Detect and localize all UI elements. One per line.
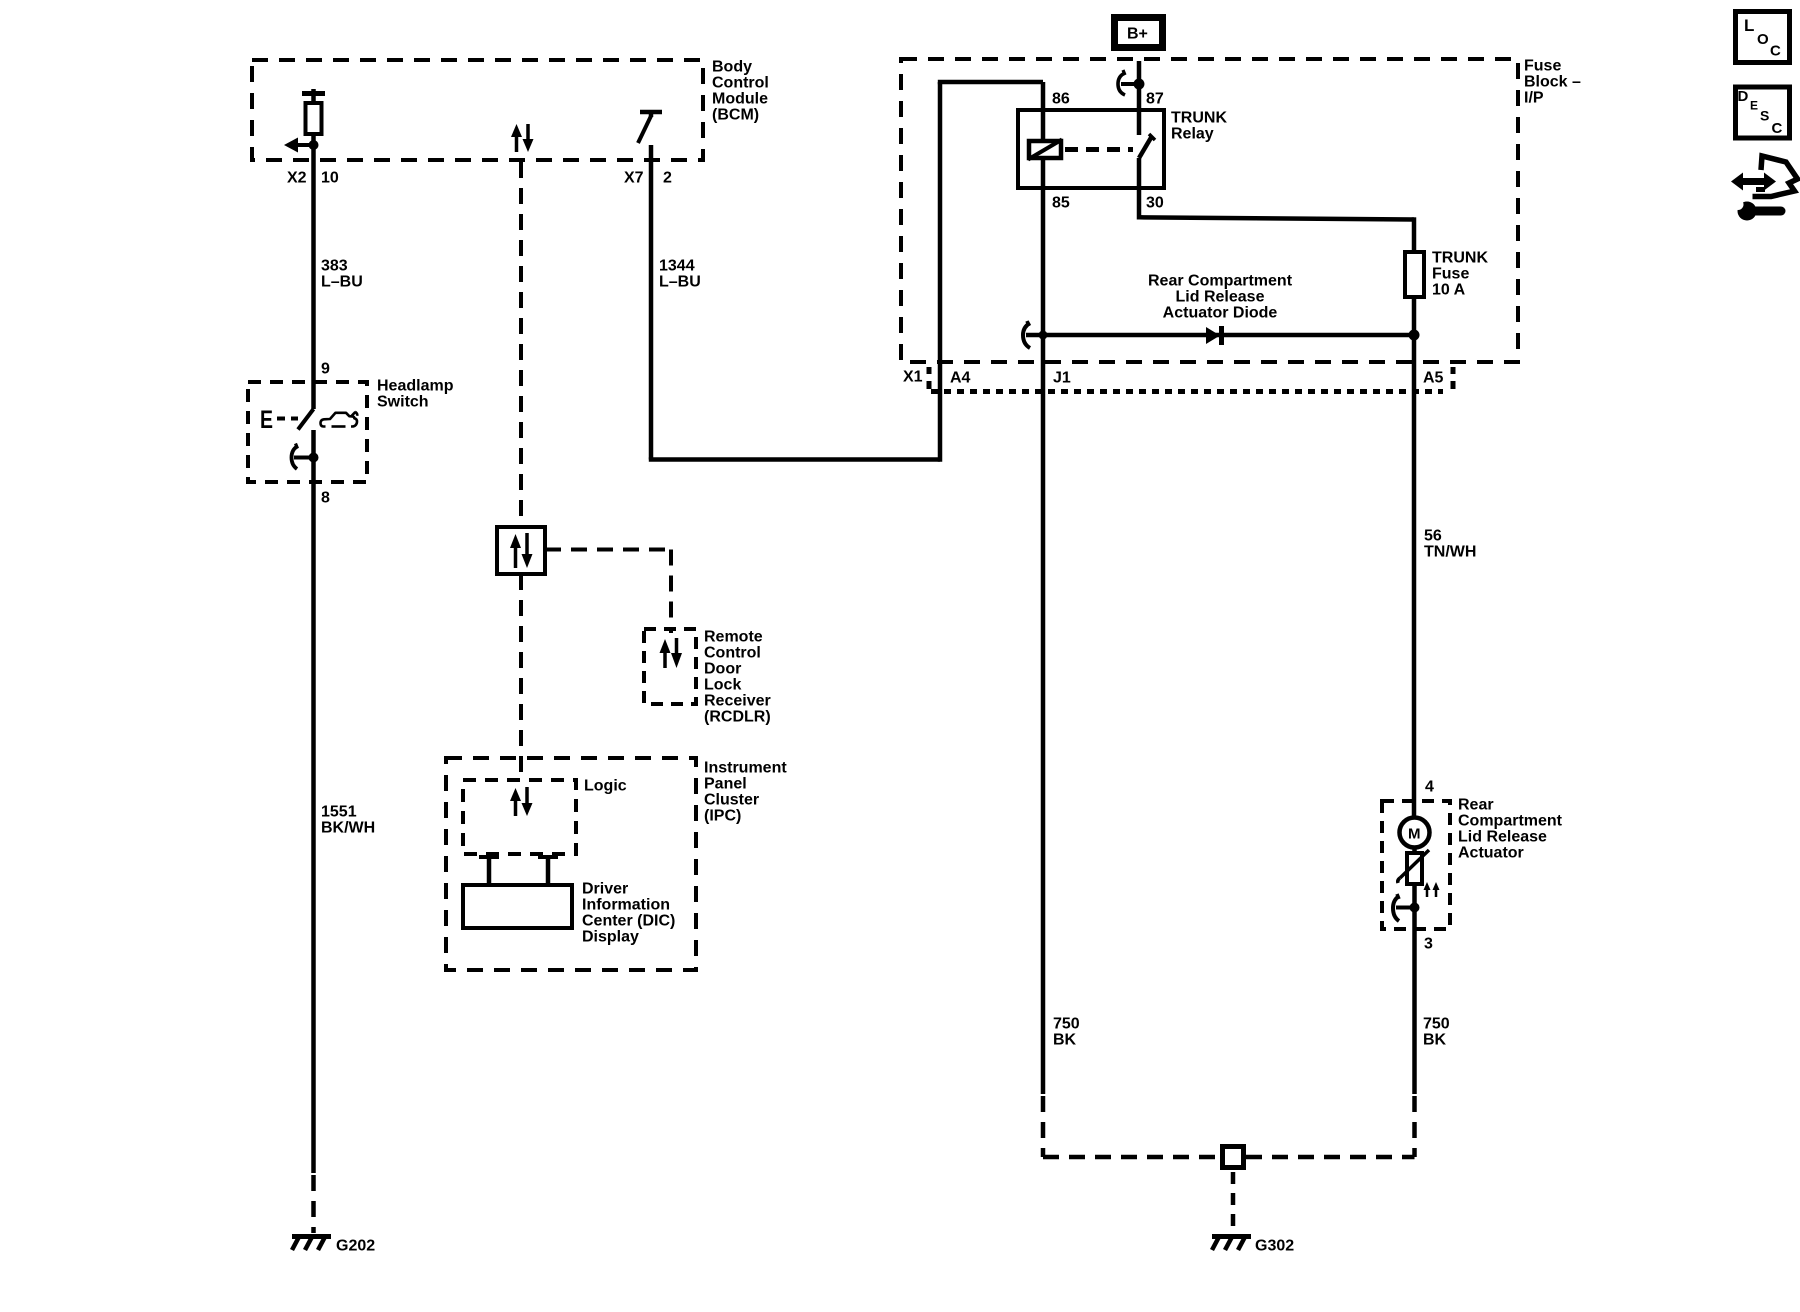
module box: Remote Control Door Lock Receiver (RCDLR) (644, 629, 771, 726)
svg-text:Body: Body (712, 59, 752, 76)
svg-text:Fuse: Fuse (1524, 58, 1561, 75)
svg-text:Lock: Lock (704, 677, 741, 694)
svg-text:Switch: Switch (377, 394, 429, 411)
headlamp switch (248, 378, 454, 483)
svg-text:X2: X2 (287, 170, 307, 187)
svg-text:Cluster: Cluster (704, 792, 759, 809)
svg-text:BK/WH: BK/WH (321, 820, 375, 837)
svg-text:Compartment: Compartment (1458, 813, 1563, 830)
IPC logic block (463, 778, 627, 855)
svg-text:O: O (1757, 31, 1769, 48)
svg-text:G202: G202 (336, 1238, 375, 1255)
svg-text:Control: Control (704, 645, 761, 662)
svg-text:BK: BK (1053, 1032, 1077, 1049)
svg-text:383: 383 (321, 258, 348, 275)
svg-text:L: L (1744, 16, 1754, 35)
connector strip X1 (A4 J1 A5) (903, 367, 1453, 392)
svg-text:1551: 1551 (321, 804, 357, 821)
svg-text:(BCM): (BCM) (712, 107, 759, 124)
svg-text:Lid Release: Lid Release (1458, 829, 1547, 846)
diode D: Rear Compartment Lid Release Actuator Diode (1023, 273, 1420, 349)
connector pin labels X7 2 (624, 170, 672, 187)
svg-text:85: 85 (1052, 195, 1070, 212)
svg-text:S: S (1760, 108, 1769, 124)
wire 750 BK (right, actuator to G302) label (1423, 1016, 1450, 1049)
svg-text:3: 3 (1424, 936, 1433, 953)
svg-text:Panel: Panel (704, 776, 747, 793)
svg-text:L–BU: L–BU (659, 274, 701, 291)
svg-text:1344: 1344 (659, 258, 695, 275)
svg-text:Actuator: Actuator (1458, 845, 1524, 862)
BCM internal switch (pin X7-2) (638, 112, 662, 161)
svg-text:87: 87 (1146, 91, 1164, 108)
wire 1344 L-BU (BCM X7-2 to relay 86) (649, 82, 1043, 462)
svg-text:BK: BK (1423, 1032, 1447, 1049)
svg-text:Receiver: Receiver (704, 693, 771, 710)
svg-text:Control: Control (712, 75, 769, 92)
ground G302 (1212, 1235, 1294, 1255)
svg-text:TRUNK: TRUNK (1432, 250, 1488, 267)
actuator PTC element (1398, 850, 1429, 884)
svg-text:4: 4 (1425, 779, 1434, 796)
battery feed B+ (1115, 18, 1163, 136)
ground G202 (292, 1235, 375, 1255)
svg-text:B+: B+ (1127, 26, 1148, 43)
BCM serial data symbol (511, 124, 534, 152)
svg-text:Rear: Rear (1458, 797, 1494, 814)
wrench icon (1733, 199, 1782, 221)
module box: Body Control Module (BCM) (252, 59, 769, 161)
svg-text:L–BU: L–BU (321, 274, 363, 291)
svg-text:M: M (1408, 826, 1421, 843)
actuator double up-arrows (1424, 882, 1440, 897)
svg-text:X1: X1 (903, 369, 923, 386)
svg-text:10 A: 10 A (1432, 282, 1466, 299)
svg-text:Driver: Driver (582, 881, 628, 898)
wire 750 BK (left, J1 to G302) label (1053, 1016, 1080, 1049)
svg-text:Lid Release: Lid Release (1176, 289, 1265, 306)
svg-text:TN/WH: TN/WH (1424, 544, 1476, 561)
svg-text:G302: G302 (1255, 1238, 1294, 1255)
DESC icon box (1736, 87, 1790, 138)
svg-text:10: 10 (321, 170, 339, 187)
relay coil (1028, 140, 1062, 160)
svg-text:Actuator Diode: Actuator Diode (1163, 305, 1278, 322)
wire from actuator through pin 3 (1415, 884, 1434, 1094)
dashed ground rail to G302 (1043, 1096, 1415, 1230)
BCM output driver (pin X2-10) (284, 89, 325, 160)
svg-text:D: D (1738, 88, 1749, 105)
svg-text:56: 56 (1424, 528, 1442, 545)
serial data wire (dashed) from BCM (521, 162, 671, 780)
svg-text:E: E (1750, 99, 1758, 113)
actuator motor M (1400, 818, 1430, 854)
svg-text:750: 750 (1423, 1016, 1450, 1033)
connector clip at relay pin 87 (1118, 70, 1145, 95)
svg-text:(IPC): (IPC) (704, 808, 741, 825)
navigation arrows icon (1731, 156, 1798, 197)
svg-text:Block –: Block – (1524, 74, 1581, 91)
relay dashed actuation link (1065, 147, 1133, 152)
actuator: Rear Compartment Lid Release Actuator (1382, 797, 1563, 930)
fuse F: TRUNK Fuse 10 A (1405, 250, 1488, 299)
serial data interface symbol (boxed) (497, 527, 545, 574)
svg-text:2: 2 (663, 170, 672, 187)
svg-text:Door: Door (704, 661, 741, 678)
svg-text:Logic: Logic (584, 778, 627, 795)
actuator connector clip (pin 3) (1393, 894, 1420, 921)
LOC icon box (1736, 12, 1790, 63)
svg-text:C: C (1770, 43, 1781, 60)
svg-text:Module: Module (712, 91, 768, 108)
wire 1551 BK/WH (314, 482, 376, 1233)
svg-text:C: C (1772, 120, 1783, 137)
svg-text:I/P: I/P (1524, 90, 1544, 107)
svg-text:Remote: Remote (704, 629, 763, 646)
svg-text:Fuse: Fuse (1432, 266, 1469, 283)
svg-text:30: 30 (1146, 195, 1164, 212)
svg-text:Headlamp: Headlamp (377, 378, 454, 395)
wire 383 L-BU (314, 160, 363, 409)
svg-text:Rear Compartment: Rear Compartment (1148, 273, 1293, 290)
wire 56 TN/WH (fuse A5 to actuator pin 4) (1414, 297, 1476, 817)
relay K: TRUNK Relay (1018, 91, 1227, 212)
svg-text:9: 9 (321, 361, 330, 378)
splice block on ground rail (1223, 1147, 1244, 1168)
svg-text:E: E (260, 406, 273, 434)
svg-text:X7: X7 (624, 170, 644, 187)
svg-text:A5: A5 (1423, 370, 1444, 387)
svg-text:86: 86 (1052, 91, 1070, 108)
svg-text:Display: Display (582, 929, 639, 946)
svg-text:750: 750 (1053, 1016, 1080, 1033)
connector pin labels X2 10 (287, 170, 339, 187)
Driver Information Center (DIC) Display (463, 857, 675, 946)
module box: Instrument Panel Cluster (IPC) (446, 758, 787, 970)
svg-text:Center (DIC): Center (DIC) (582, 913, 675, 930)
wire relay pin 30 to TRUNK fuse (1139, 158, 1414, 252)
svg-text:(RCDLR): (RCDLR) (704, 709, 771, 726)
relay switch blade (87-30) (1139, 134, 1155, 158)
module box: Fuse Block - I/P (901, 58, 1581, 363)
svg-text:Instrument: Instrument (704, 760, 787, 777)
svg-text:Relay: Relay (1171, 126, 1214, 143)
wire relay pin 85 down through J1 (1041, 158, 1046, 1094)
svg-text:Information: Information (582, 897, 670, 914)
svg-text:8: 8 (321, 490, 330, 507)
svg-text:J1: J1 (1053, 370, 1071, 387)
svg-text:A4: A4 (950, 370, 971, 387)
svg-text:TRUNK: TRUNK (1171, 110, 1227, 127)
